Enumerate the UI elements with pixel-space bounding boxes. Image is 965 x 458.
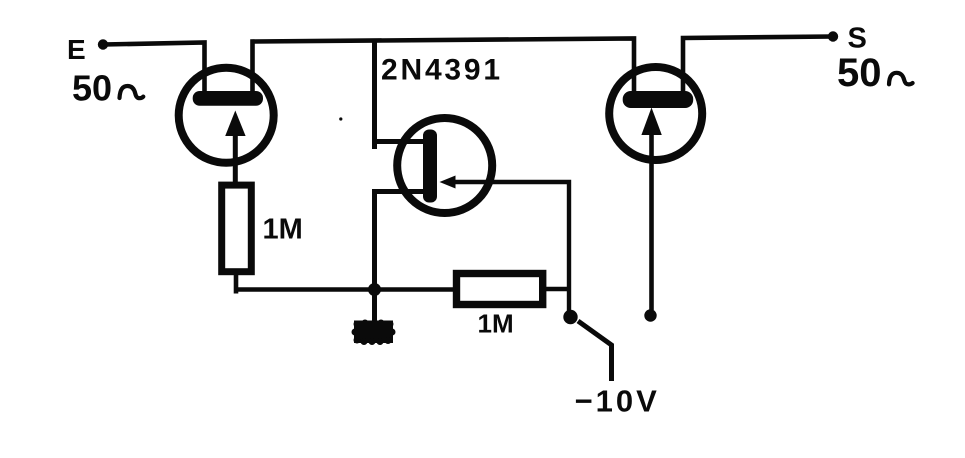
svg-text:−10V: −10V [575,384,660,419]
ground symbol (hatched block) [352,320,396,346]
small ink speck [339,117,342,120]
Q2 gate wire to bias node [452,182,569,312]
svg-text:50: 50 [72,68,112,109]
Q1 source lead up to rail [253,39,635,101]
R2 right lead [543,287,569,292]
terminal S dot [828,31,838,41]
terminal E dot [98,39,108,49]
ground junction node dot [368,283,381,296]
transistor Q3 circle (right JFET) [609,67,702,160]
svg-text:2N4391: 2N4391 [381,54,503,87]
Q1 gate arrow shaft [233,125,238,183]
switch arm wire to -10V [578,321,612,381]
Q2 source wire down to ground node [375,192,426,290]
svg-text:S: S [848,23,867,55]
Q3 channel bar [623,91,694,108]
Q1 channel bar [193,91,263,106]
svg-text:50: 50 [837,51,882,95]
bias terminal dot [563,310,577,324]
Q1 gate arrowhead [225,111,245,137]
bottom wire (source bus) [236,287,456,292]
Q3 gate arrow shaft down to bias terminal [649,118,654,310]
Q3 gate arrowhead [641,108,661,136]
transistor Q2 circle (middle JFET 2N4391) [397,118,492,213]
transistor Q1 circle (left JFET) [179,68,274,163]
Q3 source lead to S terminal [683,37,833,100]
Q2 gate arrowhead [440,176,456,189]
Q2 drain wire from rail [375,39,426,149]
svg-text:1M: 1M [478,309,514,339]
wire E to Q1 drain lead [103,43,205,100]
R1 bottom lead [234,271,239,294]
ground lead [372,290,377,325]
resistor R2 1M (horizontal) [457,274,543,305]
svg-text:1M: 1M [263,214,303,246]
Q2 channel bar [423,130,437,203]
Q3 gate terminal dot [644,309,656,321]
svg-text:E: E [67,34,86,65]
AC squiggle left [120,86,144,98]
resistor R1 1M [222,185,252,272]
AC squiggle right [889,73,913,85]
